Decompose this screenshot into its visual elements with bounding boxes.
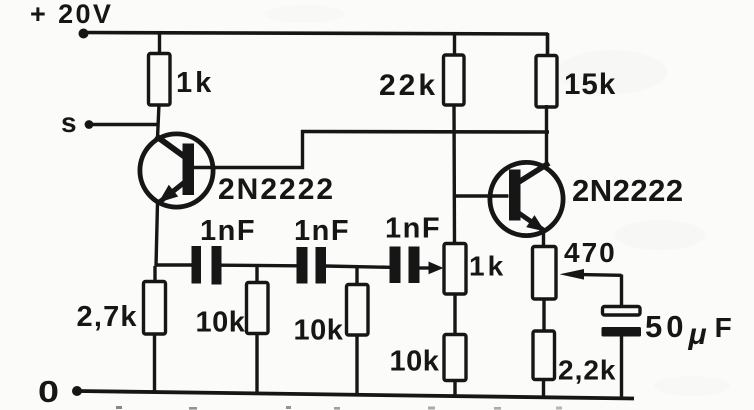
svg-text:10k: 10k [294, 315, 344, 347]
svg-text:1k: 1k [176, 67, 214, 99]
svg-text:2,7k: 2,7k [77, 301, 138, 333]
svg-text:1nF: 1nF [294, 215, 350, 247]
wire C1 to C2 [221, 264, 297, 268]
wire 470 to 2,2k [542, 299, 545, 332]
capacitor C2 1nF [297, 247, 327, 284]
wire 1k bottom lead to Q1 collector [158, 104, 160, 138]
wire 15k top lead [546, 33, 550, 56]
capacitor C3 1nF [390, 247, 420, 284]
node +20V terminal dot [79, 29, 89, 39]
svg-text:s: s [61, 107, 77, 138]
wire pot to 10k (3) [453, 294, 456, 336]
cropped print fragments at bottom edge [116, 406, 562, 410]
svg-text:1nF: 1nF [385, 213, 441, 245]
svg-text:15k: 15k [564, 68, 616, 101]
wire 1k top lead [158, 33, 161, 55]
wire wiper to 50uF [582, 273, 622, 277]
resistor 1k (collector load) [149, 54, 171, 106]
wire 50uF bottom lead [620, 336, 623, 399]
wire Q1 base to Q2 collector / 15k [301, 130, 549, 134]
wire 22k bottom lead down to 1k pot [452, 104, 456, 244]
svg-text:2,2k: 2,2k [558, 355, 617, 386]
resistor 10k (1) [247, 283, 269, 395]
resistor 2,7k [144, 266, 166, 393]
wire Q2 base lead [454, 194, 509, 197]
svg-text:10k: 10k [196, 307, 246, 339]
wire emitter node to C1 [155, 263, 192, 266]
wire junction to 10k (2) [355, 266, 358, 286]
resistor 10k (3) [444, 335, 466, 397]
wire junction to 10k (1) [255, 266, 258, 284]
resistor 22k [444, 55, 465, 105]
svg-text:50μF: 50μF [645, 309, 736, 351]
capacitor C1 1nF [192, 246, 222, 285]
wire C2 to C3 [326, 266, 391, 267]
resistor 10k (2) [347, 285, 369, 396]
svg-text:2N2222: 2N2222 [218, 173, 335, 206]
wire riser to collector rail [301, 130, 304, 169]
svg-text:2N2222: 2N2222 [572, 173, 684, 208]
resistor 2,2k [533, 331, 555, 397]
background smudges [265, 5, 730, 396]
wire bottom 0V rail [77, 391, 634, 399]
wire 15k bottom lead to Q2 collector [545, 105, 548, 167]
transistor Q2 2N2222 [490, 162, 563, 235]
arrow into 1k pot [429, 262, 444, 275]
wire 22k top lead [453, 33, 456, 56]
transistor Q1 2N2222 [140, 134, 213, 207]
svg-text:10k: 10k [390, 346, 440, 378]
potentiometer 470 [533, 247, 557, 300]
wire Q2 emitter lead [542, 231, 545, 248]
wire C3 to pot arrow [419, 266, 431, 269]
resistor 15k [536, 56, 557, 108]
svg-text:22k: 22k [379, 69, 438, 102]
wire top +20V rail [83, 33, 548, 35]
svg-text:0: 0 [38, 374, 59, 409]
wire Q1 base lead [194, 166, 304, 169]
capacitor 50uF electrolytic [602, 307, 642, 337]
svg-text:+ 20V: + 20V [30, 0, 113, 29]
svg-text:470: 470 [564, 237, 617, 268]
wire down to 50uF top plate [620, 275, 623, 308]
svg-text:1nF: 1nF [200, 215, 256, 247]
wire s input [89, 123, 159, 126]
arrow 470 wiper [560, 269, 585, 280]
node 0V terminal dot [72, 386, 82, 396]
svg-text:1k: 1k [469, 251, 506, 282]
node s terminal dot [85, 120, 94, 129]
wire Q1 emitter down [156, 203, 158, 267]
potentiometer 1k [444, 244, 466, 295]
